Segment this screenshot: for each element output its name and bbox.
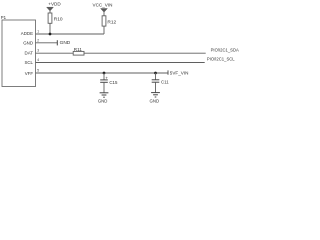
svg-text:R11: R11	[74, 47, 83, 52]
svg-text:3: 3	[37, 49, 39, 53]
wire GND pin	[36, 42, 58, 44]
pin label GND (pin 2)	[23, 38, 39, 45]
ground flag GND (pin 2)	[57, 40, 70, 46]
svg-text:C15: C15	[109, 80, 118, 85]
svg-text:PIO/I2C1_SCL: PIO/I2C1_SCL	[207, 57, 235, 62]
svg-text:PIO/I2C1_SDA: PIO/I2C1_SDA	[211, 47, 239, 52]
svg-text:GND: GND	[98, 99, 108, 104]
svg-text:+VDD: +VDD	[48, 2, 61, 7]
svg-text:C11: C11	[161, 80, 169, 85]
svg-text:GND: GND	[60, 40, 71, 46]
pin label DAT (pin 3)	[25, 49, 40, 56]
node junction R10 / ADDE	[49, 33, 52, 36]
wire ADDE row	[36, 33, 105, 35]
node junction C15 / VIN row	[103, 72, 106, 75]
svg-text:GND: GND	[23, 40, 33, 45]
svg-text:2: 2	[37, 38, 39, 42]
resistor R12	[102, 16, 116, 26]
pin label SCL (pin 4)	[24, 58, 39, 65]
wire SCL row	[36, 62, 205, 64]
wire DAT pin to R11	[36, 52, 74, 54]
wire VIN row	[36, 72, 168, 74]
resistor R11	[73, 47, 84, 55]
svg-text:VCC_VIN: VCC_VIN	[93, 3, 113, 8]
pin label VFF (pin 5)	[25, 69, 39, 76]
svg-text:DAT: DAT	[25, 50, 34, 55]
net label 5VF_VIN	[168, 70, 188, 75]
svg-text:4: 4	[37, 58, 39, 62]
capacitor C15	[100, 73, 118, 93]
ground GND (C11)	[150, 93, 160, 104]
svg-text:GND: GND	[150, 98, 160, 103]
svg-text:SCL: SCL	[24, 60, 33, 65]
node junction C11 / VIN row	[154, 72, 157, 75]
resistor R10	[48, 13, 63, 23]
svg-text:5VF_VIN: 5VF_VIN	[170, 70, 189, 75]
wire R12 to ADDE row	[103, 26, 105, 34]
svg-text:ADDE: ADDE	[21, 31, 33, 36]
power flag VCC_VIN	[93, 3, 113, 16]
power flag VDD	[47, 2, 62, 13]
svg-text:R10: R10	[54, 16, 63, 22]
svg-text:1: 1	[37, 30, 39, 34]
wire R10 to ADDE row	[49, 23, 51, 34]
svg-text:5: 5	[37, 69, 39, 73]
ground GND (C15)	[98, 93, 109, 104]
svg-text:R12: R12	[107, 19, 116, 25]
pin label ADDR (pin 1)	[21, 30, 39, 37]
connector P1	[1, 15, 36, 87]
svg-text:VFF: VFF	[25, 71, 34, 76]
svg-text:P1: P1	[1, 15, 7, 20]
wire SDA row	[84, 52, 206, 54]
capacitor C11	[152, 73, 170, 93]
